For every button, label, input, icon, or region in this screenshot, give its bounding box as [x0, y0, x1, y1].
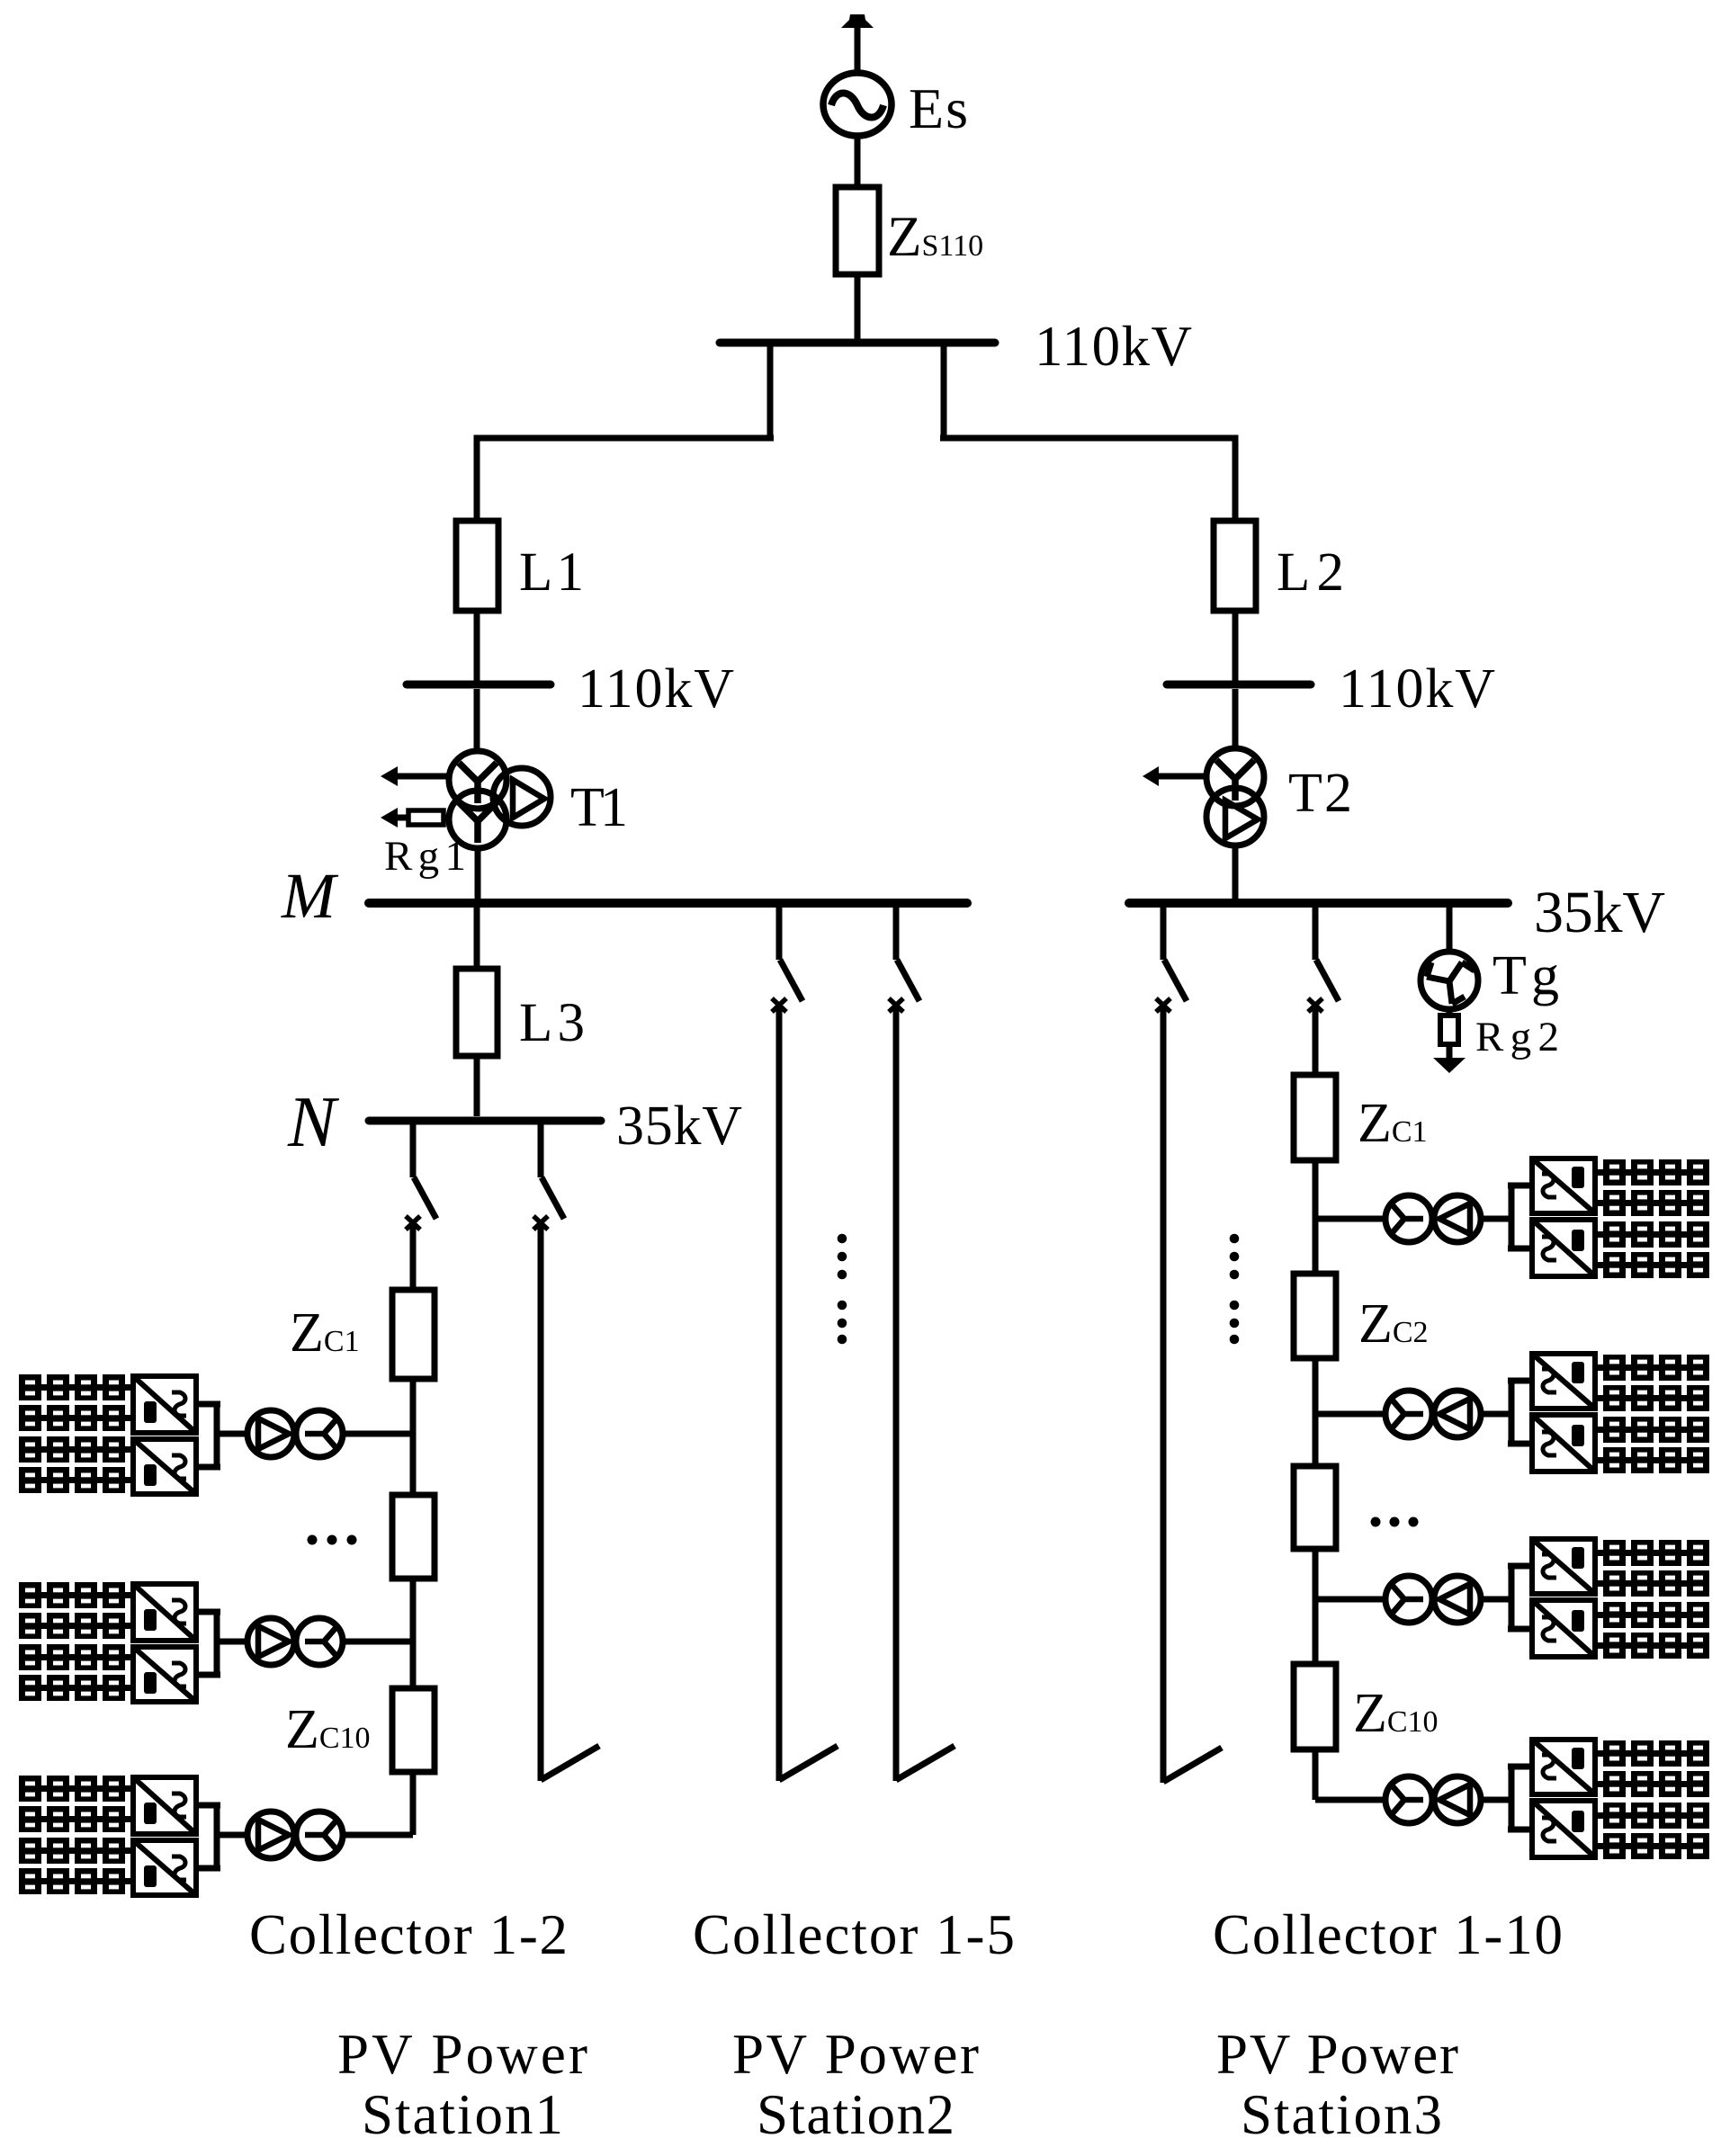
wire — [1233, 611, 1239, 681]
impedance ZS110 — [836, 187, 879, 274]
svg-text:L1: L1 — [519, 542, 584, 603]
wire — [477, 438, 774, 442]
svg-text:110kV: 110kV — [578, 658, 734, 720]
open blade station2 feeder1 — [779, 1746, 838, 1780]
transformer T2 — [1206, 748, 1264, 845]
impedance ZC10 station1 — [392, 1688, 435, 1772]
wire — [767, 346, 774, 441]
wire — [1313, 1160, 1319, 1274]
busbar 110kV right — [1167, 681, 1311, 689]
wire — [1233, 689, 1239, 749]
svg-text:Collector 1-10: Collector 1-10 — [1213, 1903, 1563, 1966]
svg-text:35kV: 35kV — [1534, 880, 1665, 945]
open blade station3 feeder1 — [1163, 1748, 1222, 1782]
svg-text:Collector 1-5: Collector 1-5 — [693, 1903, 1015, 1966]
svg-text:N: N — [287, 1083, 340, 1162]
PV unit station3 tap3 — [1315, 1539, 1709, 1659]
svg-text:110kV: 110kV — [1339, 658, 1495, 720]
impedance ZC1 station3 — [1294, 1075, 1336, 1160]
line L1 — [456, 521, 498, 611]
wire — [855, 274, 861, 339]
switch station3 feeder1 — [1156, 906, 1187, 1012]
impedance ZC10 station3 — [1294, 1664, 1336, 1749]
bus M 35kV — [369, 899, 967, 908]
svg-text:Station2: Station2 — [757, 2083, 955, 2146]
svg-text:Es: Es — [909, 76, 968, 140]
wire — [474, 611, 480, 681]
PV unit station1 tap3 — [19, 1776, 413, 1895]
switch station1 feeder2 — [533, 1123, 564, 1230]
source Es — [823, 73, 892, 136]
switch station2 feeder2 — [889, 906, 919, 1012]
open blade station1 feeder2 — [541, 1746, 599, 1780]
svg-text:110kV: 110kV — [1035, 315, 1192, 378]
open blade station2 feeder2 — [896, 1746, 955, 1780]
dots station2 — [838, 1234, 847, 1345]
wire collector station3 — [1313, 1006, 1319, 1075]
wire — [410, 1772, 417, 1835]
svg-text:L3: L3 — [519, 993, 585, 1053]
dots station1 — [308, 1535, 357, 1545]
svg-text:Collector 1-2: Collector 1-2 — [249, 1903, 568, 1966]
line L3 — [456, 969, 497, 1056]
impedance mid station3 — [1294, 1466, 1336, 1549]
arrow neutral T1 upper — [381, 766, 451, 786]
arrow neutral T2 — [1143, 766, 1208, 786]
transformer T1 — [449, 751, 551, 848]
wire collector1 — [410, 1223, 417, 1290]
switch station1 feeder1 — [406, 1123, 436, 1230]
wire — [1233, 438, 1239, 521]
wire — [1313, 1358, 1319, 1466]
bus N 35kV — [369, 1117, 601, 1125]
PV unit station3 tap2 — [1315, 1354, 1709, 1473]
wire feeder1 station3 — [1161, 1006, 1167, 1783]
svg-text:Tg: Tg — [1492, 945, 1559, 1006]
PV unit station1 tap2 — [19, 1582, 413, 1702]
wire — [474, 908, 480, 969]
busbar 110kV left — [407, 681, 551, 689]
wire feeder1 station2 — [776, 1006, 783, 1781]
dots station3 — [1230, 1234, 1240, 1345]
svg-text:Rg2: Rg2 — [1475, 1014, 1559, 1060]
svg-text:PV Power: PV Power — [1216, 2023, 1458, 2086]
PV unit station3 tap1 — [1315, 1159, 1709, 1278]
svg-text:Station1: Station1 — [362, 2083, 563, 2146]
resistor Rg2 — [1440, 1009, 1458, 1060]
bus right 35kV — [1129, 899, 1508, 908]
wire — [941, 346, 947, 441]
wire — [410, 1579, 417, 1688]
svg-text:M: M — [281, 860, 339, 932]
line L2 — [1214, 521, 1256, 611]
impedance ZC2 station3 — [1294, 1274, 1336, 1358]
svg-text:PV Power: PV Power — [337, 2023, 587, 2086]
svg-text:35kV: 35kV — [616, 1096, 742, 1157]
svg-text:Station3: Station3 — [1241, 2083, 1442, 2146]
ground — [1433, 1058, 1466, 1073]
svg-text:PV Power: PV Power — [732, 2023, 979, 2086]
top reference arrow — [841, 14, 874, 72]
wire — [1233, 845, 1239, 899]
PV unit station3 tap4 — [1315, 1740, 1709, 1859]
wire — [410, 1379, 417, 1495]
wire — [474, 438, 480, 521]
svg-text:T2: T2 — [1288, 763, 1352, 824]
resistor Rg1 — [381, 808, 450, 828]
transformer Tg — [1421, 908, 1478, 1009]
PV unit station1 tap1 — [19, 1374, 413, 1494]
wire — [940, 438, 1235, 442]
svg-text:Rg1: Rg1 — [384, 833, 466, 880]
wire — [474, 1056, 480, 1116]
wire — [1313, 1549, 1319, 1664]
impedance ZC1 station1 — [392, 1290, 435, 1379]
wire feeder2 station2 — [893, 1006, 900, 1781]
impedance mid station1 — [392, 1495, 435, 1579]
svg-text:T1: T1 — [570, 777, 628, 838]
wire — [475, 848, 481, 899]
bus 110kV — [720, 339, 995, 347]
switch station2 feeder1 — [772, 906, 802, 1012]
switch station3 feeder2 — [1308, 906, 1339, 1012]
wire feeder2 station1 — [538, 1223, 544, 1781]
wire — [855, 136, 861, 187]
wire — [1313, 1749, 1319, 1800]
dots station3 mid — [1371, 1517, 1419, 1527]
wire — [474, 689, 480, 752]
